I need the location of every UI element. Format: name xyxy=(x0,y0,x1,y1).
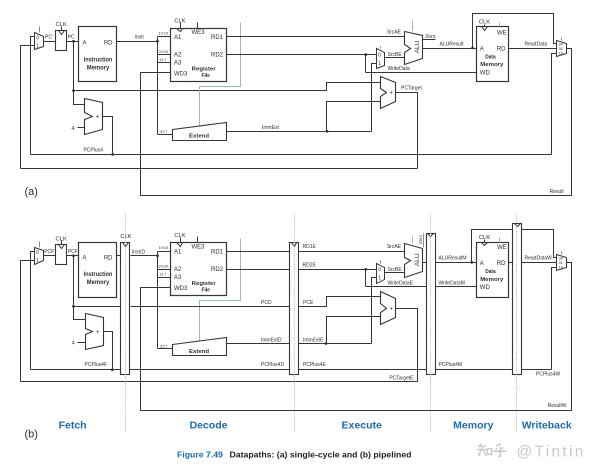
svg-text:Instruction: Instruction xyxy=(84,57,113,63)
pipeline register Memory/Writeback xyxy=(513,224,522,375)
svg-text:WE3: WE3 xyxy=(192,244,206,250)
wire ImmExt (a) xyxy=(227,131,372,133)
svg-text:PCPlus4D: PCPlus4D xyxy=(261,362,284,368)
wire WriteDataE down (b) xyxy=(365,270,367,287)
wire A3 tap 11:7 (b) xyxy=(158,277,171,279)
instruction memory (b) xyxy=(79,243,117,298)
wire ReadData to pipe reg 4 (b) xyxy=(509,262,513,264)
watermark 乎 xyxy=(493,444,506,457)
svg-text:(b): (b) xyxy=(25,428,38,440)
wire PCPlus4 feedback to PC mux input 0 (a) xyxy=(31,37,35,155)
node PC branch to PCTarget (a) xyxy=(72,89,75,92)
wire ZeroE up (b) xyxy=(423,234,425,248)
svg-text:Writeback: Writeback xyxy=(522,419,572,431)
control wire ImmSrcD (b) xyxy=(200,239,241,341)
svg-text:RD1E: RD1E xyxy=(303,244,317,250)
wire PCTargetE feedback to PC mux input 1 (b) xyxy=(21,261,35,382)
svg-text:ALU: ALU xyxy=(414,40,421,53)
svg-text:4: 4 xyxy=(72,341,75,347)
svg-text:ImmExtE: ImmExtE xyxy=(303,337,324,343)
svg-text:Decode: Decode xyxy=(190,419,228,431)
clock stub register file (b) xyxy=(180,238,182,243)
pipeline register Fetch/Decode xyxy=(121,243,130,375)
stage boundary dotted line Execute/Memory xyxy=(430,214,432,434)
wire RD2E (b) xyxy=(299,269,377,271)
wire PCTarget (a) xyxy=(396,93,418,169)
svg-text:RD2: RD2 xyxy=(211,267,224,273)
node ImmExt branch (a) xyxy=(326,130,329,133)
svg-text:PCPlus4W: PCPlus4W xyxy=(536,371,560,377)
mux SrcB mux (a) xyxy=(377,49,385,69)
svg-text:Memory: Memory xyxy=(480,277,504,283)
wire slice to Extend (a) xyxy=(158,134,173,136)
svg-text:RD1: RD1 xyxy=(211,35,224,41)
node PC tap (a) xyxy=(72,40,75,43)
svg-text:4: 4 xyxy=(72,126,75,132)
svg-text:WriteData: WriteData xyxy=(388,66,410,72)
svg-text:ResultW: ResultW xyxy=(548,403,567,409)
select stub PC mux (b) xyxy=(39,242,41,248)
svg-text:CLK: CLK xyxy=(479,20,490,26)
wire ALUResult to pipe reg 3 (b) xyxy=(423,262,427,264)
clock stub PCF register (b) xyxy=(61,241,63,245)
svg-text:PCD: PCD xyxy=(261,300,272,306)
svg-text:Result: Result xyxy=(550,189,565,195)
svg-text:Execute: Execute xyxy=(342,419,382,431)
wire ImmExtD (b) xyxy=(227,343,290,345)
svg-text:0: 0 xyxy=(36,250,39,256)
svg-text:InstrD: InstrD xyxy=(132,249,146,255)
svg-text:ReadData: ReadData xyxy=(525,42,548,48)
extend unit (a) xyxy=(173,123,227,141)
select stub PC mux (a) xyxy=(39,27,41,33)
svg-text:11:7: 11:7 xyxy=(160,273,167,277)
svg-text:CLK: CLK xyxy=(174,233,185,239)
svg-text:CLK: CLK xyxy=(56,22,67,28)
control stub ALUControl (a) xyxy=(412,21,414,32)
node PCF tap (b) xyxy=(72,254,75,257)
wire SrcB (a) xyxy=(385,57,405,59)
adder PCPlus4 (a) xyxy=(85,99,103,135)
node ImmExtE branch (b) xyxy=(325,342,328,345)
control stub MemWrite (b) xyxy=(499,238,501,243)
wire constant 4 (a) xyxy=(78,127,85,129)
wire A2 tap 24:20 (b) xyxy=(158,269,171,271)
wire PC down to adders (a) xyxy=(74,42,85,105)
wire PCTarget feedback to PC mux input 1 (a) xyxy=(21,46,35,169)
svg-text:PCPlus4: PCPlus4 xyxy=(84,148,104,154)
svg-text:RD2E: RD2E xyxy=(303,262,317,268)
node PCD branch (b) xyxy=(72,305,75,308)
svg-text:A1: A1 xyxy=(174,250,182,256)
wire ResultW (b) xyxy=(141,263,572,411)
svg-text:PCTargetE: PCTargetE xyxy=(389,376,414,382)
svg-text:PCPlus4M: PCPlus4M xyxy=(439,362,463,368)
wire InstrD (b) xyxy=(131,255,158,257)
svg-text:Data: Data xyxy=(485,54,496,60)
svg-text:PCTarget: PCTarget xyxy=(401,86,422,92)
svg-text:+: + xyxy=(390,306,394,312)
select stub Result mux (b) xyxy=(561,252,563,255)
svg-text:PCPlus4E: PCPlus4E xyxy=(303,362,326,368)
svg-text:A: A xyxy=(83,255,87,261)
svg-text:WD: WD xyxy=(480,285,491,291)
svg-text:Memory: Memory xyxy=(480,62,504,68)
svg-text:PC: PC xyxy=(68,35,75,41)
svg-text:CLK: CLK xyxy=(174,18,185,24)
pipeline register Execute/Memory xyxy=(427,234,436,375)
node RD2E branch (b) xyxy=(364,268,367,271)
wire ImmExt up to PCTarget adder (a) xyxy=(327,102,381,132)
op-amp style ALU (a) xyxy=(405,32,423,65)
svg-text:ALU: ALU xyxy=(414,253,421,266)
wire PCPlus4F (b) xyxy=(104,332,113,370)
wire constant 4 (b) xyxy=(78,342,86,344)
svg-text:A: A xyxy=(480,46,484,52)
svg-text:CLK: CLK xyxy=(120,234,131,240)
wire instr slice bus (b) xyxy=(157,252,159,349)
svg-text:0: 0 xyxy=(36,35,39,41)
svg-text:PC': PC' xyxy=(45,35,53,41)
svg-text:Datapaths: (a) single-cycle an: Datapaths: (a) single-cycle and (b) pipe… xyxy=(230,450,412,460)
wire PCPlus4W up to result mux (b) xyxy=(552,268,557,370)
svg-text:CLK: CLK xyxy=(56,237,67,243)
svg-text:WriteDataM: WriteDataM xyxy=(439,281,465,287)
wire A1 tap 19:15 (a) xyxy=(158,36,171,38)
wire WriteData (a) xyxy=(366,72,477,74)
wire RD1 to pipe reg 2 (b) xyxy=(227,251,290,253)
svg-text:19:15: 19:15 xyxy=(159,32,169,36)
node PCPlus4F row junction (b) xyxy=(111,368,114,371)
wire PC to PCTarget adder (a) xyxy=(74,83,381,91)
wire PC' (a) xyxy=(44,41,56,43)
wire ImmExtE (b) xyxy=(299,343,372,345)
wire Result (a) xyxy=(141,49,572,196)
svg-text:Fetch: Fetch xyxy=(59,419,87,431)
register PC (a) xyxy=(56,31,67,51)
wire ReadDataW (b) xyxy=(522,262,557,264)
wire PCTargetE row (b) xyxy=(21,381,418,383)
svg-text:WD3: WD3 xyxy=(174,71,188,77)
control stub WE3 (a) xyxy=(197,23,199,29)
wire Instr (a) xyxy=(117,41,158,43)
svg-text:Memory: Memory xyxy=(87,65,110,71)
svg-text:PCE: PCE xyxy=(303,300,314,306)
svg-text:1: 1 xyxy=(378,61,381,67)
svg-text:+: + xyxy=(390,91,394,97)
wire A3 tap 11:7 (a) xyxy=(158,62,171,64)
svg-text:1: 1 xyxy=(378,276,381,282)
svg-text:Memory: Memory xyxy=(453,419,493,431)
extend unit (b) xyxy=(173,338,227,356)
wire RD2 (a) xyxy=(227,54,377,56)
svg-text:0: 0 xyxy=(378,267,381,273)
wire PCPlus4F feedback to PC mux input 0 (b) xyxy=(31,252,35,370)
svg-text:WD: WD xyxy=(480,70,491,76)
wire RD2 to pipe reg 2 (b) xyxy=(227,269,290,271)
wire PCPlus4 row (b) xyxy=(31,369,552,371)
adder PCPlus4F (b) xyxy=(86,314,104,350)
pipeline register Decode/Execute xyxy=(290,243,299,375)
wire WriteDataM (b) xyxy=(436,286,477,288)
watermark 知 xyxy=(478,444,487,456)
wire PCTargetE (b) xyxy=(396,309,418,382)
svg-text:ALUResultM: ALUResultM xyxy=(439,256,467,262)
svg-text:Extend: Extend xyxy=(189,134,209,140)
wire ALUResult (a) xyxy=(423,48,477,50)
node RD2 branch (a) xyxy=(364,53,367,56)
node Instr junction (a) xyxy=(156,40,159,43)
wire RD to pipe reg (b) xyxy=(117,255,121,257)
svg-text:Extend: Extend xyxy=(189,349,209,355)
svg-text:0: 0 xyxy=(378,52,381,58)
svg-text:PCF': PCF' xyxy=(44,249,55,255)
control stub ALUControl (b) xyxy=(412,237,414,244)
svg-text:31:7: 31:7 xyxy=(160,345,167,349)
svg-text:ALUResult: ALUResult xyxy=(440,42,465,48)
wire PCF down (b) xyxy=(74,256,86,320)
svg-text:WriteDataE: WriteDataE xyxy=(388,281,414,287)
wire PCF' (b) xyxy=(44,255,56,257)
wire PCD to pipeline register (b) xyxy=(74,306,121,308)
svg-text:31:7: 31:7 xyxy=(160,130,167,134)
svg-text:SrcBE: SrcBE xyxy=(388,267,403,273)
svg-text:ImmExt: ImmExt xyxy=(262,125,280,131)
svg-text:WE3: WE3 xyxy=(192,30,206,36)
svg-text:WE: WE xyxy=(497,31,507,37)
node ALUResultM branch (b) xyxy=(470,261,473,264)
wire PCPlus4 row (a) xyxy=(31,154,552,156)
svg-text:+: + xyxy=(96,113,100,120)
svg-text:24:20: 24:20 xyxy=(159,50,169,54)
svg-text:Register: Register xyxy=(192,281,217,287)
mux SrcB mux (b) xyxy=(377,264,385,284)
wire RD1 / SrcA (a) xyxy=(227,36,405,38)
wire PC (a) xyxy=(67,41,79,43)
stage boundary dotted line Decode/Execute xyxy=(294,214,296,434)
wire PCTarget row (a) xyxy=(21,168,418,170)
op-amp style ALU (b) xyxy=(405,244,423,278)
wire Zero (a) xyxy=(423,39,436,41)
wire A1 tap 19:15 (b) xyxy=(158,251,171,253)
svg-text:(a): (a) xyxy=(25,186,38,198)
svg-text:Register: Register xyxy=(192,66,217,72)
svg-text:A1: A1 xyxy=(174,35,182,41)
svg-text:RD: RD xyxy=(497,46,506,52)
svg-text:A: A xyxy=(480,261,484,267)
wire SrcBE (b) xyxy=(385,272,405,274)
wire WriteDataE (b) xyxy=(366,286,427,288)
svg-text:SrcAE: SrcAE xyxy=(387,244,402,250)
wire ALUResult bypass over data memory (a) xyxy=(473,14,557,49)
svg-text:File: File xyxy=(201,73,210,79)
clock stub PC register (a) xyxy=(61,27,63,31)
svg-text:RD: RD xyxy=(497,261,506,267)
svg-text:+: + xyxy=(96,329,100,336)
register PCF (b) xyxy=(56,245,67,265)
register file (b) xyxy=(171,243,227,296)
clock stub data memory (a) xyxy=(484,25,486,27)
wire slice to Extend (b) xyxy=(158,348,173,350)
svg-text:Memory: Memory xyxy=(87,280,110,286)
mux Result mux (a) xyxy=(557,41,567,57)
svg-text:A3: A3 xyxy=(174,275,182,281)
svg-text:Instruction: Instruction xyxy=(84,272,113,278)
wire PCPlus4 up to result mux (a) xyxy=(552,54,557,155)
svg-text:RD1: RD1 xyxy=(211,250,224,256)
data memory (a) xyxy=(477,27,509,82)
svg-text:11:7: 11:7 xyxy=(160,58,167,62)
clock stub register file (a) xyxy=(180,23,182,29)
node InstrD junction (b) xyxy=(156,254,159,257)
instruction memory (a) xyxy=(79,27,117,82)
svg-text:1: 1 xyxy=(36,44,39,50)
clock stub data memory (b) xyxy=(484,240,486,243)
svg-text:A2: A2 xyxy=(174,267,182,273)
stage boundary dotted line Fetch/Decode xyxy=(125,214,127,434)
select stub Result mux (a) xyxy=(561,38,563,41)
svg-text:RD: RD xyxy=(104,41,113,47)
wire A2 tap 24:20 (a) xyxy=(158,54,171,56)
wire ImmExtE up to SrcB mux (b) xyxy=(372,278,377,344)
svg-text:CLK: CLK xyxy=(479,235,490,241)
control stub WE3 (b) xyxy=(197,237,199,243)
svg-text:SrcBE: SrcBE xyxy=(388,52,403,58)
svg-text:1: 1 xyxy=(36,258,39,264)
wire RD1E / SrcAE (b) xyxy=(299,251,405,253)
svg-text:Instr: Instr xyxy=(135,34,145,40)
svg-text:PCPlus4F: PCPlus4F xyxy=(85,362,108,368)
svg-text:19:15: 19:15 xyxy=(159,246,169,250)
select stub SrcB mux (b) xyxy=(380,261,382,264)
svg-text:Figure 7.49: Figure 7.49 xyxy=(177,450,223,460)
wire ALUResultM (b) xyxy=(436,262,477,264)
svg-text:A: A xyxy=(83,41,87,47)
svg-text:RD: RD xyxy=(104,255,113,261)
mux PC mux (b) xyxy=(35,248,44,265)
register file (a) xyxy=(171,29,227,82)
wire ImmExt up to SrcB mux (a) xyxy=(372,64,377,132)
wire PCPlus4 (a) xyxy=(103,117,113,155)
svg-text:File: File xyxy=(201,288,210,294)
adder PCTarget (a) xyxy=(381,77,396,109)
wire ALUResultM bypass over data memory (b) xyxy=(472,230,557,263)
select stub SrcB mux (a) xyxy=(380,47,382,49)
control wire ImmSrc (a) xyxy=(200,23,241,127)
svg-text:SrcAE: SrcAE xyxy=(387,29,402,35)
svg-text:A2: A2 xyxy=(174,53,182,59)
data memory (b) xyxy=(477,243,509,298)
svg-text:WE: WE xyxy=(497,245,507,251)
wire PCD between regs (b) xyxy=(131,306,290,308)
control stub MemWrite (a) xyxy=(499,23,501,27)
mux PC mux (a) xyxy=(35,33,44,50)
svg-text:PCF: PCF xyxy=(68,249,78,255)
svg-text:Data: Data xyxy=(485,269,496,275)
svg-text:Zero: Zero xyxy=(418,234,423,244)
wire ImmExtE up to PCTarget adder (b) xyxy=(327,317,381,344)
wire PCE (b) xyxy=(299,297,381,307)
svg-text:ImmExtD: ImmExtD xyxy=(261,337,282,343)
node PCPlus4 row junction (a) xyxy=(111,153,114,156)
svg-text:24:20: 24:20 xyxy=(159,265,169,269)
node ALUResult branch (a) xyxy=(471,47,474,50)
svg-text:RD2: RD2 xyxy=(211,53,224,59)
mux Result mux (b) xyxy=(557,255,567,271)
wire instr slice bus (a) xyxy=(157,37,159,135)
svg-text:ReadDataW: ReadDataW xyxy=(525,256,553,262)
wire ReadData (a) xyxy=(509,48,557,50)
adder PCTargetE (b) xyxy=(381,292,396,325)
svg-text:WD3: WD3 xyxy=(174,286,188,292)
stage boundary dotted line Memory/Writeback xyxy=(516,214,518,434)
svg-text:@Tintin: @Tintin xyxy=(517,444,586,461)
svg-text:A3: A3 xyxy=(174,61,182,67)
svg-text:Zero: Zero xyxy=(425,34,436,40)
wire PCF (b) xyxy=(67,255,79,257)
wire WriteData down (a) xyxy=(365,55,367,73)
